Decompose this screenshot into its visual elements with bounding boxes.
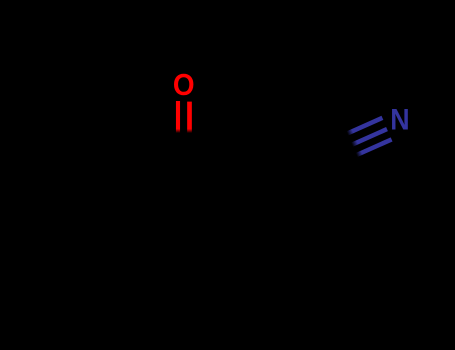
triple bond C#N line 3 (bottom, blue fading to black)	[357, 139, 392, 155]
wire: C-C skeleton bond (carbonyl C to right CH2, black on black)	[184, 166, 244, 191]
atom N (nitrile nitrogen, blue)	[390, 103, 409, 136]
triple bond C#N line 2 (middle, blue fading to black)	[352, 129, 387, 145]
svg-text:N: N	[390, 103, 409, 136]
wire: C-C skeleton bond (carbonyl C to left CH2, black on black)	[123, 166, 184, 191]
double bond C=O line 1 (left, red fading to black)	[176, 101, 180, 133]
wire: C-C skeleton bond (left CH2 to terminal CH3, black on black)	[62, 166, 123, 191]
triple bond C#N line 1 (top, blue fading to black)	[347, 118, 382, 134]
wire: C-C skeleton bond (right CH2 to nitrile C, black on black)	[244, 155, 320, 191]
double bond C=O line 2 (right, red fading to black)	[187, 102, 192, 133]
svg-text:O: O	[173, 68, 195, 103]
atom O (ketone oxygen, red)	[173, 68, 195, 103]
